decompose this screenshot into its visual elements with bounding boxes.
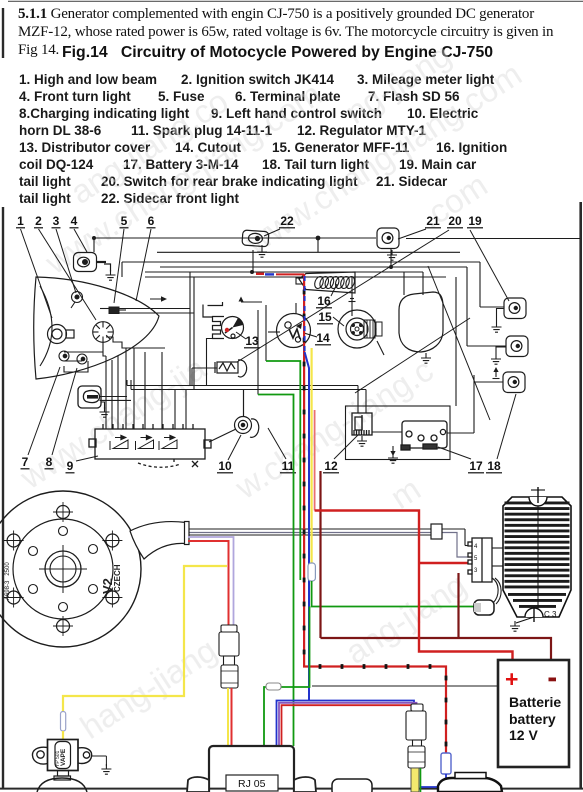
- svg-text:17: 17: [469, 459, 483, 473]
- svg-text:www.chang-jia: www.chang-jia: [13, 349, 213, 497]
- svg-text:V2: V2: [100, 578, 115, 594]
- svg-text:15: 15: [318, 310, 332, 324]
- svg-text:4: 4: [71, 214, 78, 228]
- svg-text:8: 8: [46, 455, 53, 469]
- svg-text:18: 18: [487, 459, 501, 473]
- svg-text:21: 21: [426, 214, 440, 228]
- svg-text:1: 1: [17, 214, 24, 228]
- svg-text:20: 20: [448, 214, 462, 228]
- svg-text:7: 7: [22, 455, 29, 469]
- svg-text:ang-jiang: ang-jiang: [339, 566, 473, 671]
- svg-text:C 3: C 3: [544, 610, 557, 619]
- svg-text:battery: battery: [509, 711, 556, 727]
- svg-text:14: 14: [316, 331, 330, 345]
- svg-text:12 V: 12 V: [509, 727, 538, 743]
- svg-text:hang-jiang: hang-jiang: [74, 631, 223, 746]
- svg-text:10: 10: [218, 459, 232, 473]
- svg-text:9: 9: [67, 459, 74, 473]
- svg-text:22: 22: [280, 214, 294, 228]
- svg-text:m: m: [384, 470, 427, 516]
- svg-text:VAPE: VAPE: [60, 748, 67, 766]
- svg-text:2: 2: [35, 214, 42, 228]
- svg-text:+: +: [505, 666, 518, 692]
- svg-text:6: 6: [148, 214, 155, 228]
- svg-text:3: 3: [53, 214, 60, 228]
- svg-text:12: 12: [324, 459, 338, 473]
- svg-text:RJ 05: RJ 05: [238, 778, 266, 790]
- svg-text:19: 19: [468, 214, 482, 228]
- svg-text:A698-3 2500: A698-3 2500: [5, 562, 11, 600]
- svg-text:Batterie: Batterie: [509, 694, 561, 710]
- svg-text:16: 16: [317, 294, 331, 308]
- svg-text:YP 501: YP 501: [55, 750, 61, 767]
- svg-text:13: 13: [245, 334, 259, 348]
- svg-text:5: 5: [121, 214, 128, 228]
